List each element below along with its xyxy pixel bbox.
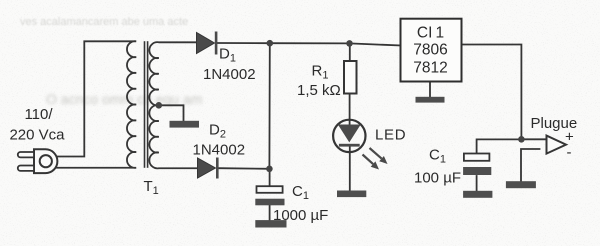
junction node at D1 output	[267, 40, 274, 47]
capacitor C1 100uF top plate	[464, 154, 490, 161]
wire node to plug triangle	[521, 138, 545, 140]
wire vertical from D1 junction down to C1 junction	[268, 43, 270, 169]
wire CI1 output right then down to plug node	[462, 45, 522, 137]
junction node at C1/D2	[266, 166, 273, 173]
plug AC top prong	[18, 152, 34, 157]
wire junction down to C1 1000uF top plate	[269, 169, 271, 186]
output plug triangle	[547, 136, 567, 154]
diode D1 cathode bar	[215, 32, 218, 55]
secondary coil with top wire to D1 and bottom wire to D2	[149, 42, 198, 168]
wire center tap to ground	[159, 105, 184, 121]
capacitor C1 100uF bottom plate	[463, 167, 491, 175]
LED circle	[333, 120, 365, 152]
svg-text:7806: 7806	[413, 42, 447, 59]
wire CI1 ground stem	[429, 82, 431, 98]
wire R1 top	[349, 43, 351, 61]
transformer core line 1	[144, 42, 146, 167]
wire C1 100uF stem to ground	[476, 176, 478, 191]
wire node left to C1 100uF	[477, 139, 518, 153]
ground center tap	[170, 121, 200, 128]
svg-text:7812: 7812	[413, 60, 447, 77]
svg-text:LED: LED	[375, 127, 406, 144]
plug AC bottom prong	[18, 166, 34, 171]
wire D2 cathode to junction	[219, 167, 269, 170]
wire D1 cathode to CI1 input (top rail)	[217, 43, 401, 46]
wire LED cathode to ground	[349, 147, 351, 191]
svg-text:+: +	[565, 129, 574, 146]
svg-text:ves acalamancarem abe uma acte: ves acalamancarem abe uma acte	[20, 16, 188, 28]
diode D2 cathode bar	[216, 158, 219, 179]
junction node at plug	[518, 136, 525, 143]
svg-text:220 Vca: 220 Vca	[9, 127, 65, 144]
svg-text:1000 µF: 1000 µF	[273, 207, 328, 224]
junction node at R1 top	[346, 40, 353, 47]
resistor R1 body	[344, 61, 357, 94]
LED cathode bar	[339, 144, 360, 147]
LED light arrow 2	[363, 155, 380, 170]
svg-text:1,5 kΩ: 1,5 kΩ	[297, 82, 341, 99]
capacitor C1 1000uF bottom plate	[255, 199, 284, 206]
svg-text:1N4002: 1N4002	[203, 66, 256, 83]
LED triangle	[338, 125, 361, 143]
junction node center tap	[156, 102, 163, 109]
ground C1 1000uF	[255, 220, 286, 227]
wire C1 plates inner stem	[269, 205, 271, 220]
svg-text:1N4002: 1N4002	[193, 142, 246, 159]
plug AC body	[34, 149, 57, 173]
svg-text:CI 1: CI 1	[417, 25, 444, 42]
wire R1 bottom to LED	[349, 94, 351, 125]
ground LED	[337, 191, 366, 198]
svg-text:100 µF: 100 µF	[414, 170, 461, 187]
LED light arrow 1	[370, 148, 388, 164]
diode D2 triangle	[198, 158, 216, 178]
svg-text:110/: 110/	[24, 106, 53, 123]
plug AC inner circle	[40, 155, 52, 167]
wire plug minus to ground	[521, 149, 540, 181]
ground plug minus	[506, 181, 536, 188]
diode D1 triangle	[197, 33, 215, 54]
ground CI1	[416, 97, 445, 103]
ground C1 100uF	[463, 191, 492, 198]
capacitor C1 1000uF top plate	[257, 186, 283, 193]
svg-text:-: -	[567, 144, 572, 161]
regulator CI1 box	[401, 19, 462, 82]
transformer core line 2	[147, 42, 149, 167]
wire plug top to transformer primary top + primary coil + bottom wire	[57, 41, 136, 168]
